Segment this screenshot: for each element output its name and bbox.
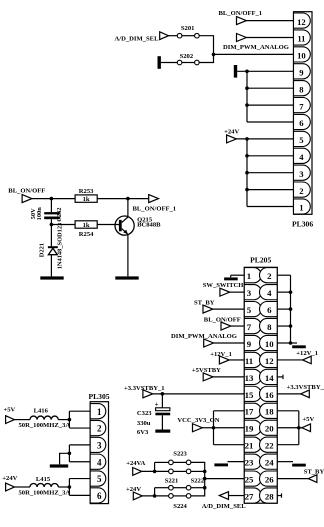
svg-text:8: 8	[267, 322, 272, 332]
svg-text:28: 28	[265, 491, 274, 501]
svg-text:VCC_3V3_ON: VCC_3V3_ON	[177, 417, 219, 424]
svg-text:4: 4	[97, 457, 102, 467]
svg-text:+24V: +24V	[224, 129, 239, 136]
svg-text:DIM_PWM_ANALOG: DIM_PWM_ANALOG	[223, 44, 289, 51]
svg-text:S202: S202	[180, 53, 194, 60]
svg-text:S201: S201	[181, 25, 195, 32]
svg-text:BL_ON/OFF_1: BL_ON/OFF_1	[219, 10, 263, 17]
svg-text:8: 8	[299, 84, 304, 94]
svg-text:6: 6	[97, 491, 102, 501]
svg-text:1k: 1k	[83, 196, 90, 203]
svg-text:6V3: 6V3	[137, 429, 149, 436]
svg-text:1: 1	[247, 271, 251, 281]
svg-text:R254: R254	[79, 231, 94, 238]
svg-text:3: 3	[299, 169, 303, 179]
svg-text:C323: C323	[137, 410, 152, 417]
svg-text:+5VSTBY: +5VSTBY	[192, 367, 221, 374]
svg-text:1: 1	[97, 407, 102, 417]
svg-text:S223: S223	[173, 450, 187, 457]
svg-text:PL306: PL306	[292, 219, 313, 228]
svg-text:18: 18	[265, 407, 274, 417]
svg-text:+24VA: +24VA	[126, 460, 145, 467]
svg-text:23: 23	[245, 458, 254, 468]
svg-text:+24V: +24V	[2, 475, 17, 482]
svg-text:+: +	[155, 401, 159, 409]
svg-text:ST_BY: ST_BY	[304, 468, 324, 475]
svg-text:7: 7	[299, 101, 304, 111]
svg-text:5: 5	[97, 474, 102, 484]
svg-text:3: 3	[247, 288, 252, 298]
svg-text:A/D_DIM_SEL: A/D_DIM_SEL	[115, 35, 160, 42]
svg-text:BL_ON/OFF_1: BL_ON/OFF_1	[133, 206, 177, 213]
svg-text:A/D_DIM_SEL: A/D_DIM_SEL	[202, 503, 247, 510]
svg-text:16: 16	[265, 390, 274, 400]
svg-text:17: 17	[245, 407, 254, 417]
svg-text:27: 27	[245, 491, 254, 501]
svg-text:11: 11	[245, 356, 253, 366]
svg-text:BL_ON/OFF: BL_ON/OFF	[8, 188, 45, 195]
svg-text:19: 19	[245, 424, 254, 434]
svg-text:SW_SWITCH: SW_SWITCH	[203, 282, 245, 289]
svg-text:4: 4	[299, 152, 304, 162]
svg-text:S221: S221	[165, 477, 179, 484]
svg-text:1N4148_SOD123: 1N4148_SOD123	[57, 223, 64, 270]
svg-text:BC848B: BC848B	[137, 222, 161, 229]
svg-text:D221: D221	[39, 243, 46, 257]
svg-text:2: 2	[267, 271, 272, 281]
svg-text:22: 22	[265, 441, 274, 451]
svg-text:12: 12	[265, 356, 274, 366]
svg-text:PL205: PL205	[250, 256, 271, 265]
svg-text:C232: C232	[56, 207, 63, 221]
svg-text:L415: L415	[36, 476, 51, 483]
svg-text:7: 7	[247, 322, 252, 332]
svg-text:+5V: +5V	[4, 406, 16, 413]
svg-text:50R_100MHZ_3A: 50R_100MHZ_3A	[19, 490, 71, 497]
svg-text:100n: 100n	[36, 207, 43, 221]
svg-text:6: 6	[299, 118, 304, 128]
svg-text:+5V: +5V	[302, 416, 314, 423]
svg-text:1: 1	[299, 203, 303, 213]
svg-text:5: 5	[247, 305, 252, 315]
svg-text:L416: L416	[34, 408, 49, 415]
svg-text:9: 9	[247, 339, 252, 349]
svg-text:3: 3	[97, 440, 102, 450]
svg-text:S224: S224	[173, 503, 187, 510]
svg-text:1k: 1k	[83, 222, 90, 229]
svg-text:24: 24	[265, 458, 274, 468]
svg-text:+12V_1: +12V_1	[296, 350, 318, 357]
svg-text:50R_100MHZ_3A: 50R_100MHZ_3A	[19, 422, 71, 429]
svg-text:R253: R253	[79, 188, 94, 195]
svg-text:PL305: PL305	[88, 392, 109, 401]
svg-text:9: 9	[299, 68, 303, 78]
svg-text:+3.3VSTBY_1: +3.3VSTBY_1	[287, 384, 324, 391]
svg-text:6: 6	[267, 305, 272, 315]
svg-text:10: 10	[265, 339, 274, 349]
svg-text:20: 20	[265, 424, 274, 434]
svg-text:2: 2	[97, 424, 102, 434]
svg-text:S222: S222	[191, 477, 205, 484]
svg-text:11: 11	[297, 34, 305, 44]
svg-text:4: 4	[267, 288, 272, 298]
svg-text:330u: 330u	[137, 420, 151, 427]
svg-text:15: 15	[245, 390, 254, 400]
svg-text:14: 14	[265, 373, 274, 383]
svg-text:25: 25	[245, 475, 254, 485]
svg-text:2: 2	[299, 186, 303, 196]
svg-text:26: 26	[265, 475, 274, 485]
svg-text:10: 10	[297, 51, 306, 61]
svg-text:21: 21	[245, 441, 254, 451]
svg-text:12: 12	[297, 17, 306, 27]
svg-text:5: 5	[299, 135, 303, 145]
svg-text:13: 13	[245, 373, 254, 383]
